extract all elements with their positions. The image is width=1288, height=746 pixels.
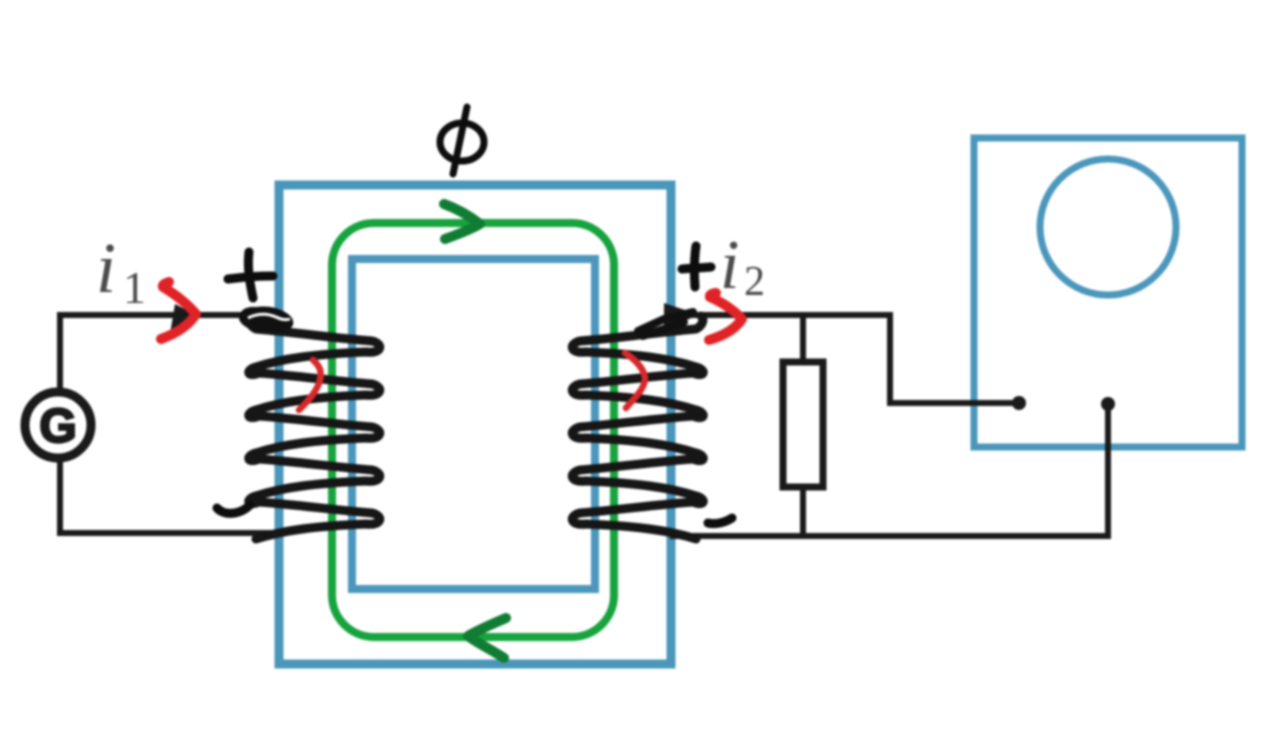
- svg-text:1: 1: [123, 262, 146, 313]
- svg-text:i: i: [96, 228, 116, 308]
- svg-text:G: G: [39, 400, 76, 453]
- svg-text:i: i: [720, 227, 739, 304]
- svg-text:2: 2: [744, 259, 765, 305]
